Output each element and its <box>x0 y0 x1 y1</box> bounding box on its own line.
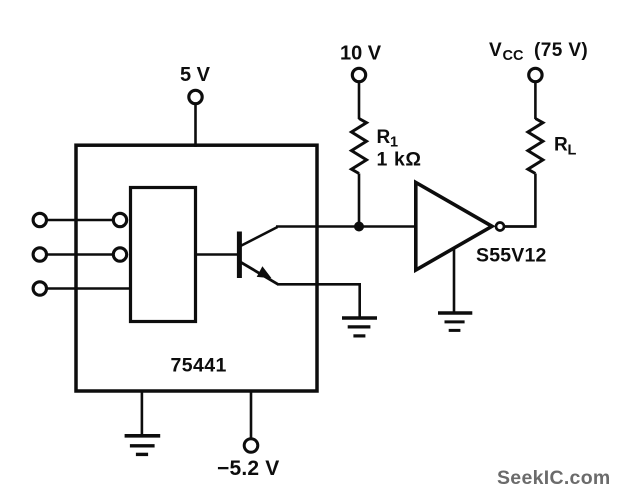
wire collector to inverter <box>276 225 416 228</box>
svg-text:V: V <box>489 40 502 61</box>
transistor Q1 emitter arrow <box>257 266 272 278</box>
svg-text:CC: CC <box>503 48 524 64</box>
wire input 3 <box>47 287 131 290</box>
inverter U1 S55V12 <box>416 183 492 271</box>
wire base <box>196 253 238 256</box>
-5.2V terminal <box>244 439 258 453</box>
wire 5V lead <box>194 104 197 147</box>
transistor Q1 emitter <box>240 262 279 285</box>
ground (inverter) <box>438 313 472 330</box>
wire input 1 <box>47 219 113 222</box>
wire inverter ground stub <box>453 247 456 312</box>
inner logic block <box>131 188 196 322</box>
wire emitter <box>277 284 360 317</box>
inverter output bubble <box>496 223 504 231</box>
resistor R1 <box>352 119 367 174</box>
svg-text:R: R <box>554 135 568 156</box>
svg-text:R: R <box>377 127 391 148</box>
10V terminal <box>352 68 365 81</box>
input terminal 2 <box>33 248 46 261</box>
wire ground stub (IC) <box>141 391 144 435</box>
svg-text:L: L <box>568 143 577 159</box>
svg-text:SeekIC.com: SeekIC.com <box>497 467 611 489</box>
wire input 2 <box>47 253 113 256</box>
resistor RL <box>528 119 543 174</box>
input terminal 3 <box>33 282 46 295</box>
ground (IC) <box>125 436 161 455</box>
wire RL to bubble <box>505 174 536 227</box>
IC box 75441 <box>76 145 317 391</box>
label VCC (75 V) <box>489 40 588 64</box>
svg-text:10 V: 10 V <box>340 43 382 65</box>
svg-text:1 kΩ: 1 kΩ <box>377 149 422 171</box>
svg-text:−5.2 V: −5.2 V <box>217 457 280 480</box>
svg-text:(75 V): (75 V) <box>534 40 588 61</box>
5V terminal <box>189 90 202 103</box>
pin circle input 2 <box>113 248 126 261</box>
VCC terminal <box>529 68 542 81</box>
transistor Q1 collector <box>240 227 278 247</box>
input terminal 1 <box>33 213 46 226</box>
svg-text:5 V: 5 V <box>180 64 211 86</box>
svg-text:75441: 75441 <box>171 355 227 377</box>
transistor Q1 base bar <box>237 232 242 279</box>
node junction dot <box>354 222 364 232</box>
wire -5.2V stub <box>250 391 253 439</box>
wire VCC lead <box>534 82 537 119</box>
wire bubble to RL <box>505 225 537 228</box>
svg-text:S55V12: S55V12 <box>476 245 547 267</box>
ground (emitter) <box>342 318 377 336</box>
wire R1 to node <box>358 174 361 227</box>
wire 10V lead <box>358 82 361 119</box>
pin circle input 1 <box>113 213 126 226</box>
